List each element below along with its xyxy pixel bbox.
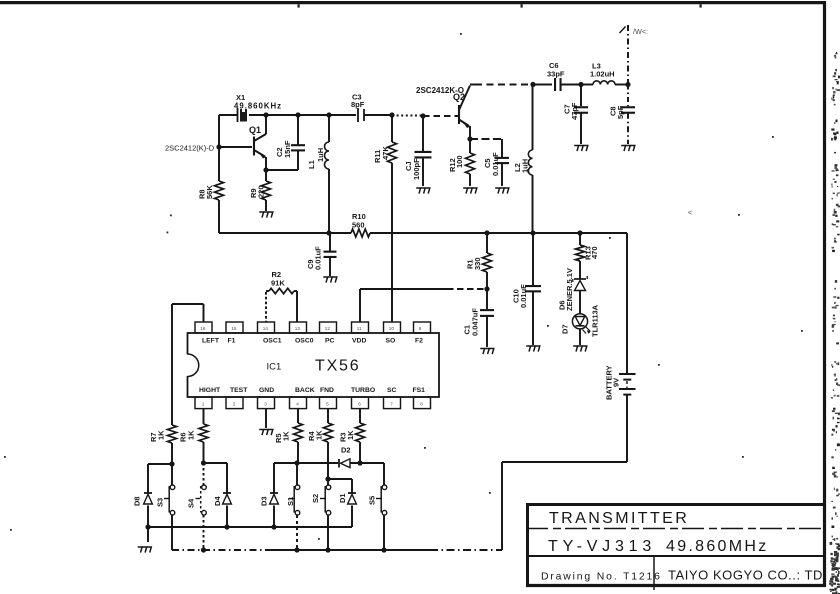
svg-text:10: 10: [389, 326, 395, 331]
svg-text:0.047uF: 0.047uF: [471, 308, 480, 336]
svg-text:OSC0: OSC0: [295, 337, 314, 344]
svg-text:TRANSMITTER: TRANSMITTER: [549, 510, 689, 527]
svg-text:16: 16: [200, 326, 206, 331]
svg-text:TY-VJ313: TY-VJ313: [548, 538, 656, 555]
svg-text:GND: GND: [259, 387, 274, 394]
svg-text:0.01uF: 0.01uF: [314, 246, 323, 270]
svg-text:1K: 1K: [157, 430, 166, 440]
svg-text:4: 4: [296, 401, 299, 406]
svg-text:Q1: Q1: [249, 125, 261, 135]
svg-text:IC1: IC1: [267, 362, 282, 373]
svg-text:S3: S3: [156, 498, 165, 507]
svg-text:6: 6: [358, 401, 361, 406]
svg-text:91K: 91K: [271, 279, 285, 288]
svg-text:1: 1: [202, 401, 205, 406]
svg-text:S1: S1: [286, 497, 295, 506]
svg-text:220: 220: [257, 185, 266, 198]
svg-text:470: 470: [590, 246, 599, 259]
svg-text:D3: D3: [260, 496, 269, 506]
svg-text:1uH: 1uH: [521, 159, 530, 173]
svg-text:15nF: 15nF: [283, 140, 292, 158]
svg-text:3: 3: [264, 401, 267, 406]
svg-text:TAIYO KOGYO CO..: TD: TAIYO KOGYO CO..: TD: [668, 568, 823, 583]
svg-text:BACK: BACK: [295, 387, 315, 394]
svg-text:100: 100: [455, 155, 464, 168]
svg-text:PC: PC: [325, 337, 335, 344]
svg-text:VDD: VDD: [352, 337, 366, 344]
svg-text:33pF: 33pF: [547, 70, 565, 79]
svg-text:15: 15: [231, 326, 237, 331]
svg-text:8pF: 8pF: [351, 100, 365, 109]
svg-text:OSC1: OSC1: [263, 337, 282, 344]
svg-text:D2: D2: [341, 446, 351, 455]
svg-text:S2: S2: [311, 494, 320, 503]
svg-text:47K: 47K: [381, 146, 390, 160]
svg-text:47pF: 47pF: [570, 102, 579, 120]
svg-text:D1: D1: [338, 493, 347, 503]
svg-text:TEST: TEST: [230, 387, 248, 394]
svg-text:D8: D8: [133, 496, 142, 506]
svg-text:Q2: Q2: [453, 92, 465, 102]
svg-text:1K: 1K: [346, 430, 355, 440]
svg-text:D7: D7: [561, 324, 570, 334]
svg-text:2SC2412(K)-D: 2SC2412(K)-D: [165, 144, 215, 153]
svg-text:0.01uF: 0.01uF: [519, 284, 528, 308]
svg-text:ZENER.5.1V: ZENER.5.1V: [565, 268, 574, 311]
svg-text:2: 2: [233, 401, 236, 406]
svg-text:TX56: TX56: [315, 358, 360, 375]
svg-text:330: 330: [473, 257, 482, 270]
svg-text:HIGHT: HIGHT: [199, 387, 221, 394]
svg-text:49.860KHz: 49.860KHz: [234, 102, 282, 111]
svg-text:S5: S5: [368, 496, 377, 505]
svg-text:S4: S4: [187, 498, 196, 508]
svg-text:Drawing No. T1216: Drawing No. T1216: [541, 572, 662, 583]
svg-text:8: 8: [420, 401, 423, 406]
svg-text:SO: SO: [386, 337, 396, 344]
svg-text:/W<:: /W<:: [633, 27, 648, 36]
svg-text:14: 14: [263, 326, 269, 331]
svg-text:11: 11: [357, 326, 362, 331]
svg-text:LEFT: LEFT: [202, 337, 220, 344]
svg-text:SC: SC: [387, 387, 397, 394]
svg-text:FS1: FS1: [413, 387, 426, 394]
svg-text:0.01uF: 0.01uF: [491, 152, 500, 176]
svg-text:1K: 1K: [315, 430, 324, 440]
svg-text:12: 12: [325, 326, 331, 331]
svg-text:56K: 56K: [205, 185, 214, 199]
svg-text:F1: F1: [228, 337, 236, 344]
svg-text:5: 5: [326, 401, 329, 406]
svg-text:560: 560: [352, 221, 365, 230]
svg-text:<: <: [688, 210, 692, 217]
svg-text:13: 13: [295, 326, 301, 331]
svg-text:5pF: 5pF: [616, 105, 625, 119]
svg-text:7: 7: [390, 401, 393, 406]
svg-text:1.02uH: 1.02uH: [590, 70, 615, 79]
svg-text:L1: L1: [307, 160, 316, 169]
svg-text:1uH: 1uH: [316, 148, 325, 162]
svg-text:TLR113A: TLR113A: [591, 304, 600, 337]
svg-text:9V: 9V: [612, 378, 621, 387]
svg-text:FND: FND: [320, 387, 334, 394]
svg-text:49.860MHz: 49.860MHz: [666, 538, 769, 555]
svg-text:100pF: 100pF: [412, 158, 421, 180]
svg-text:1K: 1K: [187, 430, 196, 440]
svg-text:F2: F2: [415, 337, 423, 344]
svg-text:D4: D4: [213, 496, 222, 506]
svg-text:TURBO: TURBO: [351, 387, 375, 394]
svg-text:1K: 1K: [282, 431, 291, 441]
svg-text:9: 9: [419, 326, 422, 331]
